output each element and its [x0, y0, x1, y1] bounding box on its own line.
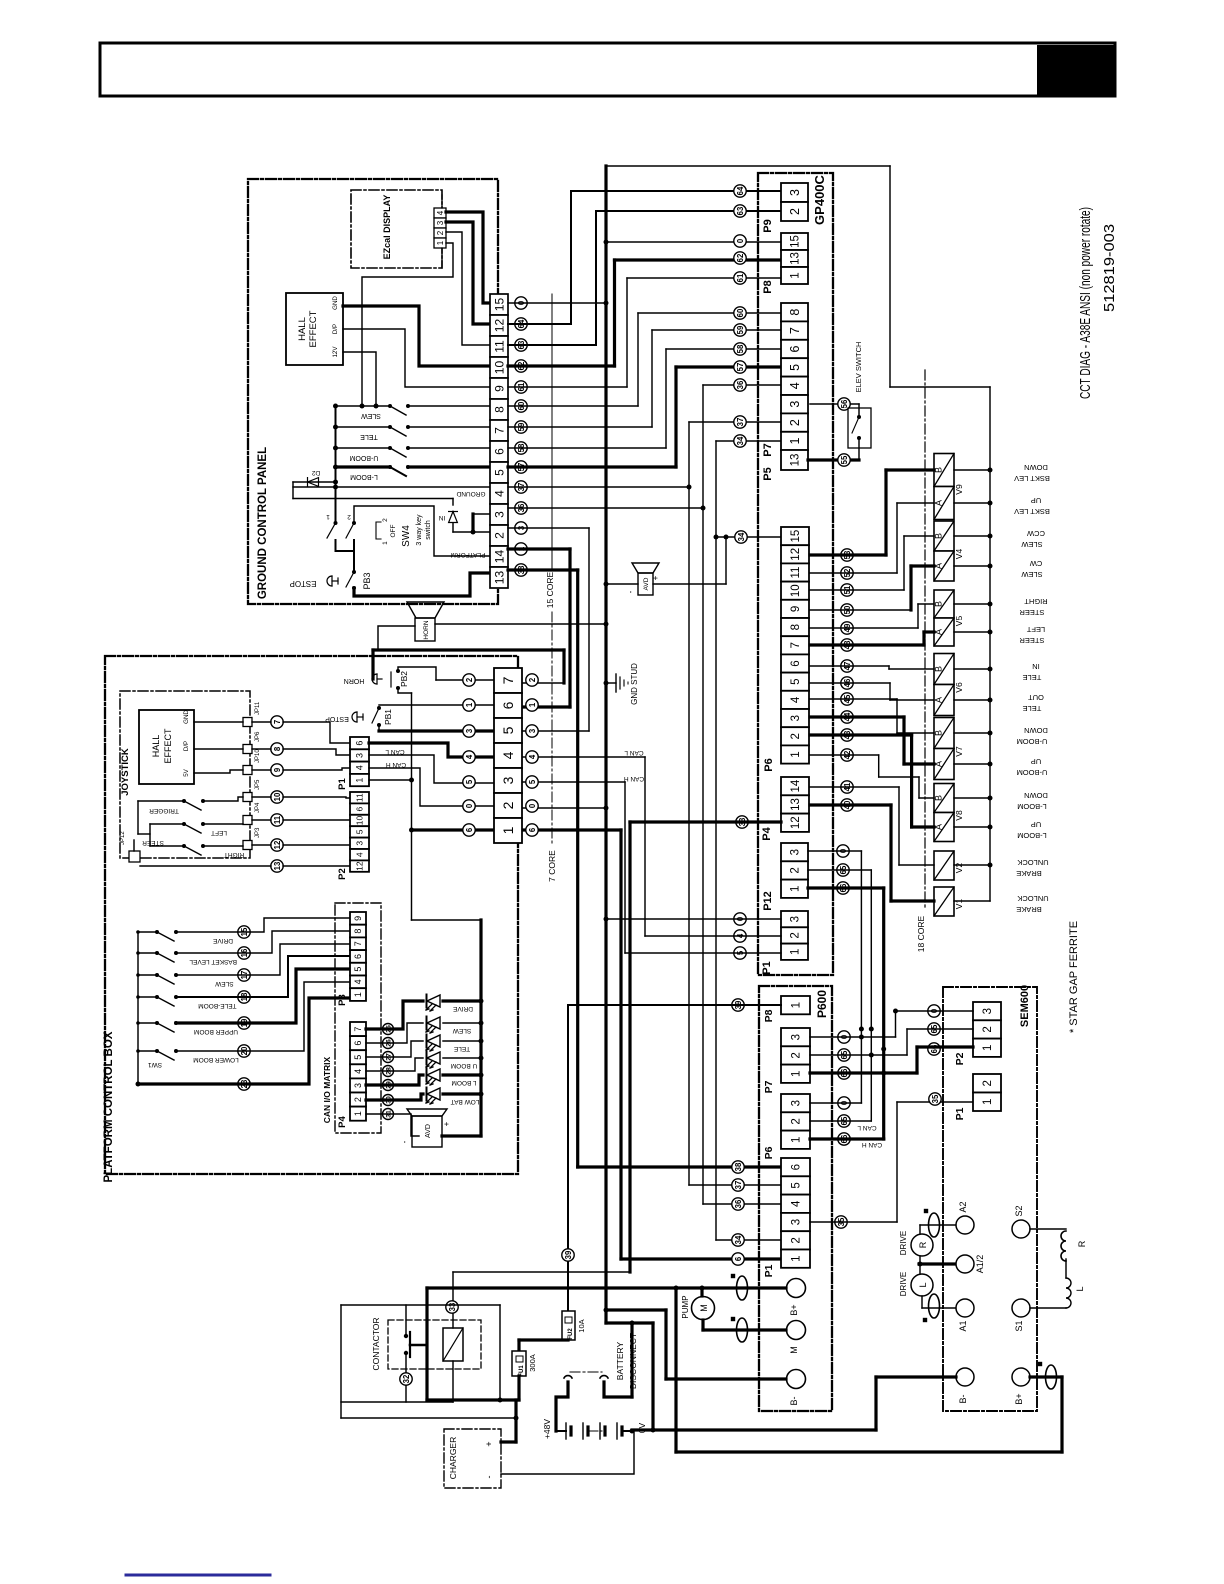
- svg-text:L-BOOM: L-BOOM: [350, 473, 378, 480]
- 18 core boundary: [924, 370, 926, 910]
- svg-text:3 way key: 3 way key: [416, 514, 423, 546]
- svg-text:TELE-BOOM: TELE-BOOM: [198, 1002, 236, 1009]
- svg-text:6: 6: [528, 827, 537, 832]
- svg-text:13: 13: [492, 571, 506, 585]
- svg-text:D2: D2: [311, 469, 320, 476]
- svg-text:1: 1: [465, 702, 474, 707]
- svg-text:34: 34: [736, 436, 745, 445]
- svg-text:TELE: TELE: [453, 1045, 470, 1052]
- svg-text:V6: V6: [954, 682, 964, 693]
- wire 59: [508, 426, 652, 428]
- wire 0 top run to valves: [606, 165, 890, 167]
- connector P4: [781, 777, 809, 795]
- motor armature wires: [919, 1225, 921, 1234]
- svg-text:UP: UP: [1031, 820, 1041, 829]
- svg-text:ESTOP: ESTOP: [290, 579, 317, 588]
- JP12 square: [129, 851, 140, 862]
- svg-text:7: 7: [273, 720, 282, 724]
- svg-text:OFF: OFF: [390, 524, 397, 537]
- svg-text:V7: V7: [954, 746, 964, 757]
- svg-text:ELEV SWITCH: ELEV SWITCH: [854, 342, 863, 393]
- svg-text:CAN H: CAN H: [386, 761, 407, 768]
- connector P7: [781, 303, 808, 321]
- svg-text:2: 2: [528, 677, 537, 682]
- svg-text:4: 4: [353, 979, 363, 984]
- svg-text:2: 2: [791, 1052, 803, 1058]
- fuse FU1 300A: [519, 1338, 568, 1341]
- svg-text:1: 1: [382, 541, 389, 545]
- svg-text:12: 12: [790, 548, 802, 561]
- svg-text:13: 13: [790, 454, 802, 467]
- svg-text:0: 0: [528, 803, 537, 808]
- pump negative return: [664, 1310, 667, 1379]
- pushbutton PB2 horn: [396, 669, 400, 673]
- svg-text:4: 4: [355, 852, 365, 857]
- svg-text:TELE: TELE: [360, 433, 378, 440]
- svg-text:2: 2: [500, 801, 516, 809]
- svg-text:DOWN: DOWN: [1024, 463, 1048, 472]
- svg-text:512819-003: 512819-003: [1101, 224, 1118, 312]
- svg-text:P6: P6: [763, 758, 775, 771]
- svg-text:JP4: JP4: [255, 802, 261, 813]
- svg-text:12: 12: [790, 816, 802, 829]
- svg-text:GND: GND: [183, 710, 190, 724]
- svg-text:15: 15: [790, 530, 802, 543]
- svg-text:2: 2: [790, 867, 802, 873]
- svg-text:4: 4: [436, 210, 445, 215]
- valve V9: [934, 454, 954, 487]
- svg-text:DRIVE: DRIVE: [899, 1231, 908, 1255]
- EZcal display box: [351, 190, 442, 268]
- wire PB3 to pin13: [354, 573, 490, 596]
- svg-text:PUMP: PUMP: [681, 1295, 690, 1318]
- svg-text:A: A: [934, 500, 944, 506]
- title block border: [100, 43, 1115, 96]
- svg-text:63: 63: [736, 206, 745, 215]
- svg-text:37: 37: [736, 418, 745, 427]
- svg-text:7 CORE: 7 CORE: [547, 850, 557, 882]
- GP400C wire bubbles: [734, 185, 746, 197]
- svg-text:10A: 10A: [577, 1319, 586, 1332]
- svg-text:33: 33: [448, 1302, 457, 1311]
- svg-text:ESTOP: ESTOP: [325, 715, 349, 722]
- svg-text:5: 5: [790, 678, 802, 684]
- svg-text:1: 1: [500, 826, 516, 834]
- svg-text:13: 13: [273, 861, 282, 870]
- svg-text:10: 10: [273, 792, 282, 801]
- valve common bus: [989, 387, 991, 901]
- svg-text:P9: P9: [762, 219, 774, 232]
- svg-text:CCW: CCW: [1026, 529, 1045, 538]
- svg-text:BRAKE: BRAKE: [1016, 905, 1041, 914]
- svg-text:B-: B-: [789, 1396, 799, 1405]
- field coil L: [1066, 1278, 1071, 1308]
- svg-text:6: 6: [465, 827, 474, 832]
- svg-text:JP10: JP10: [255, 749, 261, 763]
- CAN wires P12 to SEM600: [808, 850, 861, 852]
- svg-text:CAN H: CAN H: [624, 775, 645, 782]
- wire 36: [508, 507, 703, 509]
- svg-text:7: 7: [492, 427, 506, 434]
- svg-text:-: -: [400, 1140, 409, 1143]
- svg-text:9: 9: [790, 606, 802, 612]
- svg-text:2: 2: [790, 932, 802, 938]
- svg-text:SLEW: SLEW: [361, 412, 381, 419]
- svg-text:P1: P1: [763, 1264, 775, 1277]
- svg-text:18 CORE: 18 CORE: [916, 915, 926, 952]
- svg-text:P4: P4: [337, 1115, 348, 1127]
- ground control panel enclosure: [248, 179, 498, 604]
- svg-text:P6: P6: [763, 1146, 775, 1159]
- svg-text:60: 60: [736, 308, 745, 317]
- wire 36 long drop: [702, 508, 704, 1204]
- svg-text:DRIVE: DRIVE: [452, 1005, 473, 1012]
- wire 63: [508, 344, 596, 346]
- platform feed bus: [412, 919, 482, 921]
- svg-text:4: 4: [528, 754, 537, 759]
- svg-text:JP12: JP12: [120, 831, 126, 845]
- svg-text:IN: IN: [438, 514, 445, 521]
- switch L-BOOM: [336, 465, 391, 468]
- svg-text:JOYSTICK: JOYSTICK: [120, 748, 131, 796]
- svg-text:6: 6: [790, 660, 802, 666]
- svg-text:HALL: HALL: [151, 735, 161, 758]
- svg-text:5: 5: [528, 779, 537, 784]
- valve feed wires from P6: [810, 553, 886, 556]
- SEM600 connector P1: [973, 1074, 1001, 1093]
- svg-text:DOWN: DOWN: [1024, 726, 1048, 735]
- svg-text:PB2: PB2: [399, 671, 409, 687]
- svg-text:5: 5: [791, 1182, 803, 1188]
- platform AVD sounder: [407, 1109, 447, 1116]
- svg-text:1: 1: [326, 513, 330, 520]
- AVD sounder: [632, 563, 659, 573]
- svg-text:BASKET LEVEL: BASKET LEVEL: [189, 958, 237, 965]
- svg-text:2: 2: [791, 1118, 803, 1124]
- svg-text:CAN I/O MATRIX: CAN I/O MATRIX: [322, 1056, 332, 1123]
- SEM600 wire bubbles: [928, 1005, 940, 1017]
- svg-text:L-BOOM: L-BOOM: [1017, 831, 1047, 840]
- svg-text:15: 15: [492, 298, 506, 312]
- svg-text:5: 5: [788, 364, 802, 371]
- svg-text:13: 13: [790, 252, 802, 265]
- svg-text:2: 2: [982, 1080, 994, 1086]
- valve V5: [934, 590, 954, 618]
- svg-text:B: B: [934, 601, 944, 607]
- svg-text:7: 7: [353, 1027, 363, 1032]
- switch wires to P3: [176, 918, 350, 932]
- SEM600 B- wire: [876, 1375, 956, 1378]
- P600 P6 rows: [810, 1102, 861, 1104]
- SEM600 B- terminal: [956, 1368, 974, 1386]
- svg-text:34: 34: [737, 532, 746, 541]
- wire 42: [810, 754, 879, 756]
- LED wires: [366, 1001, 423, 1029]
- battery 0V bus: [632, 1428, 876, 1431]
- svg-text:IN: IN: [1032, 662, 1040, 671]
- SEM600 B+ wire: [1030, 1375, 1062, 1378]
- wire 57: [508, 465, 676, 468]
- svg-text:CAN H: CAN H: [862, 1141, 883, 1148]
- wire 0 bus: [604, 166, 607, 1323]
- switch TELE: [336, 426, 391, 428]
- svg-text:GROUND: GROUND: [456, 490, 485, 497]
- svg-text:D/P: D/P: [332, 324, 339, 334]
- charger: [444, 1429, 501, 1488]
- svg-text:L: L: [1075, 1286, 1085, 1291]
- svg-text:RIGHT: RIGHT: [1024, 597, 1048, 606]
- horn: [407, 602, 444, 618]
- connector P12: [781, 843, 808, 861]
- SEM600 B+ terminal: [1012, 1368, 1030, 1386]
- CAN H wire 5: [522, 781, 625, 783]
- wires JP to P1/P2: [252, 721, 271, 723]
- svg-text:3: 3: [788, 189, 802, 196]
- svg-text:8: 8: [273, 746, 282, 751]
- valve V6: [934, 654, 954, 685]
- footer blue line: [126, 1574, 270, 1577]
- svg-text:2: 2: [492, 532, 506, 539]
- svg-text:0: 0: [465, 803, 474, 808]
- wire 41 to V2: [810, 786, 899, 788]
- pushbutton PB1 estop: [377, 706, 381, 710]
- svg-text:S1: S1: [1014, 1320, 1024, 1331]
- svg-text:HORN: HORN: [344, 677, 365, 684]
- svg-text:6: 6: [353, 954, 363, 959]
- svg-text:L-BOOM: L-BOOM: [1017, 802, 1047, 811]
- svg-text:B: B: [934, 730, 944, 736]
- svg-text:1: 1: [791, 1255, 803, 1261]
- svg-text:57: 57: [736, 363, 745, 372]
- svg-text:7: 7: [500, 676, 516, 684]
- diode IN: [449, 512, 458, 523]
- wire 32: [405, 1353, 407, 1402]
- svg-text:2: 2: [353, 1097, 363, 1102]
- svg-text:V2: V2: [954, 863, 964, 874]
- wire 38 long: [508, 568, 578, 571]
- CAN I/O matrix enclosure: [335, 903, 381, 1133]
- drive motor R: [911, 1234, 933, 1256]
- svg-text:8: 8: [788, 309, 802, 316]
- svg-text:P3: P3: [337, 994, 348, 1006]
- diode D2: [293, 481, 336, 483]
- platform switch bubbles: [238, 926, 250, 938]
- P600 connector P6: [781, 1094, 810, 1112]
- svg-text:3: 3: [436, 220, 445, 225]
- svg-text:HORN: HORN: [423, 620, 430, 639]
- svg-text:AVD: AVD: [425, 1124, 432, 1138]
- svg-text:JP11: JP11: [255, 701, 261, 715]
- svg-text:14: 14: [492, 550, 506, 564]
- field coil R: [1030, 1228, 1066, 1230]
- platform switch bank: [137, 932, 139, 1084]
- contactor: [388, 1320, 481, 1369]
- platform connector P1: [350, 737, 369, 749]
- platform connector P3: [350, 912, 366, 925]
- svg-text:V1: V1: [954, 899, 964, 910]
- svg-text:3: 3: [790, 849, 802, 855]
- svg-text:P8: P8: [763, 1009, 775, 1022]
- svg-text:B-: B-: [958, 1394, 968, 1403]
- svg-text:STEER: STEER: [1019, 636, 1045, 645]
- svg-text:BATTERY: BATTERY: [615, 1341, 625, 1380]
- battery positive feed wire: [427, 1286, 676, 1289]
- svg-text:B: B: [934, 666, 944, 672]
- P600 M terminal: [787, 1321, 806, 1340]
- svg-text:2: 2: [791, 1237, 803, 1243]
- svg-text:R: R: [918, 1241, 928, 1248]
- svg-text:36: 36: [736, 380, 745, 389]
- P600 wire bubbles: [732, 999, 744, 1011]
- valve V2: [934, 851, 954, 880]
- svg-text:GND: GND: [332, 296, 339, 310]
- hall wires to JPs: [194, 721, 243, 723]
- charger wires: [514, 1400, 517, 1442]
- 7 core connector: [494, 668, 522, 693]
- SEM600 connector P2: [973, 1002, 1001, 1020]
- svg-text:2: 2: [382, 518, 389, 522]
- svg-text:RIGHT: RIGHT: [224, 851, 244, 858]
- svg-text:GND STUD: GND STUD: [630, 663, 639, 705]
- svg-text:6: 6: [355, 741, 365, 746]
- svg-text:1: 1: [790, 272, 802, 278]
- SEM600 enclosure: [943, 987, 1037, 1411]
- horn return thick wire: [371, 650, 374, 679]
- svg-text:LEFT: LEFT: [211, 829, 227, 836]
- platform CAN wires: [369, 743, 494, 757]
- svg-text:2: 2: [788, 419, 802, 426]
- svg-text:3: 3: [790, 715, 802, 721]
- terminal S2: [1012, 1220, 1030, 1238]
- svg-text:P1: P1: [954, 1107, 966, 1120]
- connector P9: [781, 183, 808, 202]
- svg-text:M: M: [699, 1304, 709, 1312]
- svg-text:P1: P1: [761, 961, 773, 974]
- svg-text:P5: P5: [762, 467, 774, 480]
- svg-text:300A: 300A: [528, 1354, 537, 1372]
- svg-text:A2: A2: [958, 1201, 968, 1212]
- svg-text:GROUND CONTROL PANEL: GROUND CONTROL PANEL: [257, 447, 269, 599]
- wire 35: [810, 1221, 897, 1223]
- terminal A1/2: [956, 1255, 974, 1273]
- svg-text:UP: UP: [1031, 496, 1041, 505]
- svg-text:1: 1: [791, 1137, 803, 1143]
- svg-text:PLATFORM CONTROL BOX: PLATFORM CONTROL BOX: [103, 1031, 115, 1182]
- wire EZ4 to pin15: [446, 212, 490, 303]
- svg-text:5V: 5V: [183, 768, 190, 776]
- CAN L wire 4: [522, 756, 645, 758]
- svg-text:39: 39: [564, 1250, 573, 1259]
- svg-text:12: 12: [355, 861, 365, 871]
- svg-text:V5: V5: [954, 616, 964, 627]
- svg-text:PLATFORM: PLATFORM: [451, 551, 486, 558]
- svg-text:3: 3: [492, 511, 506, 518]
- svg-text:12: 12: [273, 840, 282, 849]
- wire ground row pin4: [293, 486, 490, 488]
- JP connector squares: [243, 718, 252, 727]
- svg-text:HALL: HALL: [297, 317, 308, 341]
- svg-text:JP3: JP3: [255, 827, 261, 838]
- svg-text:6: 6: [791, 1164, 803, 1170]
- pushbutton PB3 ESTOP: [352, 570, 356, 574]
- 7 core wire bubbles: [463, 674, 475, 686]
- P600 B+ terminal: [787, 1279, 806, 1298]
- svg-text:UPPER BOOM: UPPER BOOM: [194, 1028, 238, 1035]
- svg-text:5: 5: [355, 829, 365, 834]
- svg-text:3: 3: [355, 841, 365, 846]
- svg-text:SLEW: SLEW: [1020, 570, 1042, 579]
- svg-text:EFFECT: EFFECT: [163, 728, 173, 764]
- svg-text:PB1: PB1: [383, 709, 393, 725]
- svg-text:OUT: OUT: [1028, 693, 1044, 702]
- svg-text:+48V: +48V: [542, 1419, 552, 1439]
- svg-text:37: 37: [734, 1181, 743, 1190]
- svg-text:-: -: [484, 1476, 494, 1479]
- wire hall GND to pin10: [343, 306, 490, 366]
- B+ bottom bus: [674, 1288, 677, 1452]
- svg-text:U-BOOM: U-BOOM: [1017, 737, 1048, 746]
- P600 B- terminal: [787, 1370, 806, 1389]
- wire 62: [508, 364, 615, 367]
- svg-text:3: 3: [791, 1219, 803, 1225]
- svg-text:1: 1: [790, 751, 802, 757]
- svg-text:BSKT LEV: BSKT LEV: [1014, 507, 1050, 516]
- wire pin3 jumper: [471, 514, 474, 532]
- SEM600 CAN rows: [896, 1010, 974, 1012]
- wire 3: [508, 527, 589, 529]
- pump motor: [692, 1297, 715, 1320]
- svg-text:1: 1: [791, 1002, 803, 1008]
- svg-text:V8: V8: [954, 810, 964, 821]
- svg-text:SW1: SW1: [148, 1061, 162, 1068]
- svg-text:4: 4: [355, 765, 365, 770]
- svg-text:V9: V9: [954, 484, 964, 495]
- joystick enclosure: [120, 691, 250, 858]
- svg-text:EFFECT: EFFECT: [308, 310, 319, 347]
- wire EZ1: [362, 243, 453, 406]
- svg-text:4: 4: [465, 754, 474, 759]
- svg-text:UNLOCK: UNLOCK: [1017, 894, 1048, 903]
- platform connector P4: [350, 1022, 366, 1036]
- svg-text:STEER: STEER: [142, 839, 164, 846]
- svg-text:DOWN: DOWN: [1024, 791, 1048, 800]
- svg-text:+: +: [484, 1441, 494, 1446]
- fuse FU2 10A: [567, 1005, 569, 1311]
- svg-text:P8: P8: [762, 280, 774, 293]
- svg-text:CW: CW: [1029, 559, 1042, 568]
- svg-text:9: 9: [353, 916, 363, 921]
- valve V4: [934, 521, 954, 551]
- svg-text:8: 8: [492, 406, 506, 413]
- svg-text:6: 6: [500, 701, 516, 709]
- wire 6 platform feed: [398, 688, 412, 693]
- wire EZ3 to pin12: [446, 222, 490, 324]
- svg-text:CHARGER: CHARGER: [448, 1437, 458, 1480]
- svg-text:3: 3: [353, 1083, 363, 1088]
- wire to IN diode: [293, 498, 453, 500]
- svg-text:6: 6: [355, 806, 365, 811]
- svg-text:1: 1: [355, 778, 365, 783]
- svg-text:64: 64: [736, 186, 745, 195]
- svg-text:SEM600: SEM600: [1019, 985, 1031, 1027]
- svg-text:3: 3: [982, 1008, 994, 1014]
- trigger switch: [138, 800, 184, 802]
- svg-text:STEER: STEER: [1019, 608, 1045, 617]
- wire 58: [508, 447, 666, 449]
- svg-text:5: 5: [500, 726, 516, 734]
- svg-text:P7: P7: [762, 443, 774, 456]
- svg-text:SLEW: SLEW: [214, 980, 233, 987]
